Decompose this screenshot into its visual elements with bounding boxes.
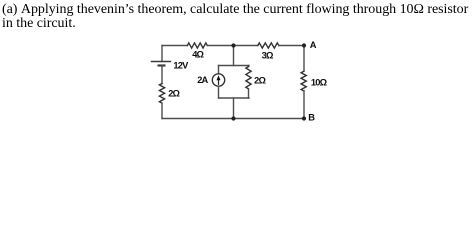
resistor R2 3ohm zigzag — [258, 43, 279, 48]
wire bottom rail — [162, 118, 304, 120]
wire stub top node to subloop — [233, 46, 235, 66]
wire stub subloop to bottom rail — [233, 98, 235, 119]
current source I1 arrow — [218, 79, 220, 84]
wire top rail right segment — [279, 45, 304, 47]
svg-text:2Ω: 2Ω — [254, 76, 266, 86]
wire subloop bottom horizontal — [219, 97, 250, 99]
resistor R3 2ohm left zigzag — [159, 84, 164, 104]
wire subloop left lower — [218, 86, 220, 98]
wire top rail middle segment — [207, 45, 257, 47]
svg-text:10Ω: 10Ω — [311, 78, 328, 88]
wire top rail left segment — [162, 45, 187, 47]
resistor R1 4ohm zigzag — [187, 43, 207, 48]
wire subloop right upper — [248, 66, 250, 67]
wire subloop right lower — [248, 89, 250, 98]
question text — [2, 3, 474, 32]
wire right rail lower — [303, 91, 305, 119]
current source I1 circle — [212, 74, 224, 86]
node B dot — [302, 116, 306, 120]
svg-text:2A: 2A — [197, 75, 208, 85]
battery V1 long plate — [152, 61, 171, 63]
resistor R4 2ohm middle zigzag — [246, 67, 251, 89]
resistor R5 10ohm zigzag — [301, 71, 306, 91]
svg-text:3Ω: 3Ω — [262, 50, 274, 60]
svg-text:A: A — [310, 40, 317, 50]
svg-text:2Ω: 2Ω — [168, 89, 180, 99]
svg-text:4Ω: 4Ω — [192, 50, 204, 60]
junction node top — [231, 43, 235, 47]
wire right rail upper — [303, 46, 305, 72]
junction node bottom — [231, 116, 235, 120]
wire subloop top horizontal — [219, 65, 250, 67]
wire left rail lower — [161, 103, 163, 118]
node A dot — [302, 43, 306, 47]
wire subloop left upper — [218, 66, 220, 74]
wire battery to R3 — [161, 66, 163, 84]
svg-text:B: B — [308, 113, 315, 123]
svg-text:12V: 12V — [173, 61, 189, 71]
battery V1 short plate — [158, 64, 166, 66]
wire left rail upper (to battery) — [161, 46, 163, 62]
